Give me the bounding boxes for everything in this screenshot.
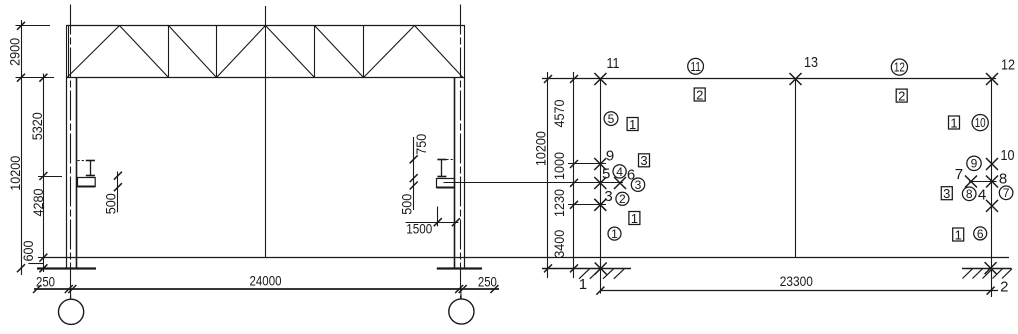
right crane level line <box>969 181 997 183</box>
truss diagonal 3 <box>169 26 217 78</box>
right-fig inner dimension line <box>573 72 575 278</box>
tick right-fig inner crane level <box>570 179 578 187</box>
tick 1500 right <box>452 218 460 226</box>
svg-text:7: 7 <box>955 166 963 183</box>
svg-text:2900: 2900 <box>7 38 23 66</box>
svg-text:1: 1 <box>955 227 962 242</box>
truss web vertical 3 <box>314 26 316 78</box>
svg-text:8: 8 <box>966 187 973 201</box>
truss right end vertical <box>464 26 466 78</box>
svg-text:2: 2 <box>619 192 626 206</box>
tick 1500 left <box>434 218 442 226</box>
measuring point circle 7 <box>999 186 1013 200</box>
right column inner flange <box>454 78 456 269</box>
tick bottom dim right end <box>490 285 498 293</box>
svg-text:5320: 5320 <box>29 112 45 140</box>
measuring point circle 10 <box>972 115 988 131</box>
truss web vertical 2 <box>216 26 218 78</box>
svg-text:10: 10 <box>975 115 986 130</box>
right column axis (dash-dot) <box>460 5 462 299</box>
svg-text:500: 500 <box>399 194 415 215</box>
extension vertical for 1500 <box>437 207 439 227</box>
svg-text:250: 250 <box>478 273 497 289</box>
svg-text:1000: 1000 <box>551 152 567 180</box>
tick 500R bottom <box>410 182 418 190</box>
svg-text:7: 7 <box>1003 186 1010 200</box>
tick 5320/4280 <box>39 172 47 180</box>
gauge square 1 lower-right <box>953 228 964 241</box>
svg-text:3: 3 <box>635 178 642 192</box>
measuring point circle 6 <box>974 227 987 240</box>
left corbel thick bottom <box>78 186 96 188</box>
dim line 750/500 right <box>413 137 415 210</box>
measuring point circle 1 <box>608 227 621 240</box>
svg-text:500: 500 <box>103 193 119 214</box>
svg-text:1: 1 <box>950 115 957 130</box>
right axis circle <box>449 299 474 324</box>
truss left end vertical <box>66 26 68 78</box>
measuring point circle 4 <box>613 165 626 178</box>
svg-text:1: 1 <box>629 117 636 132</box>
svg-text:4570: 4570 <box>551 99 567 127</box>
node 5 marker <box>594 177 606 189</box>
tick 23300 left <box>596 287 604 295</box>
truss diagonal 2 <box>120 26 169 78</box>
tick bottom dim left axis a <box>65 285 73 293</box>
tick 500L top <box>114 172 122 180</box>
extension line truss bottom <box>16 77 55 79</box>
node 2 marker <box>985 262 997 274</box>
extension line truss top <box>16 25 51 27</box>
svg-text:5: 5 <box>608 112 615 126</box>
svg-text:1: 1 <box>611 227 618 241</box>
svg-text:12: 12 <box>894 60 905 75</box>
svg-text:4280: 4280 <box>30 188 46 216</box>
left column outer flange <box>66 78 68 269</box>
node 4 marker <box>986 200 998 212</box>
extension stub floor level <box>38 257 44 259</box>
extension line corbel top level <box>38 176 62 178</box>
svg-text:3: 3 <box>604 188 612 205</box>
svg-text:9: 9 <box>971 157 978 171</box>
right crane rail top flange <box>437 159 446 161</box>
dim line for 1500 <box>406 222 459 224</box>
tick right-fig inner top <box>570 75 578 83</box>
svg-text:250: 250 <box>36 273 55 289</box>
truss diagonal 6 <box>315 26 364 78</box>
svg-text:24000: 24000 <box>250 272 282 288</box>
extension line level 9 <box>568 163 606 165</box>
tick 10200 bottom <box>17 264 25 272</box>
node 11 marker <box>594 73 606 85</box>
left crane rail dashed tie <box>78 160 87 162</box>
left outer dimension line <box>21 20 23 275</box>
svg-text:1230: 1230 <box>551 189 567 217</box>
left crane rail top flange <box>86 160 95 162</box>
svg-text:6: 6 <box>977 227 984 241</box>
middle column axis line <box>795 79 797 258</box>
tick 23300 right <box>987 287 995 295</box>
right crane rail stem <box>441 160 443 177</box>
tick right-fig outer top <box>544 75 552 83</box>
gauge square 2 left <box>694 88 705 101</box>
svg-text:12: 12 <box>1001 56 1015 73</box>
svg-text:10: 10 <box>1001 147 1015 164</box>
truss bottom chord <box>66 77 465 79</box>
svg-text:11: 11 <box>690 59 701 74</box>
measuring point circle 3 <box>631 178 644 191</box>
svg-text:3: 3 <box>640 153 647 168</box>
tick 2900 top <box>17 22 25 30</box>
truss diagonal 1 <box>67 26 120 78</box>
gauge square 1 upper-right <box>949 116 960 129</box>
gauge square 1 lower-left <box>629 212 640 225</box>
left column axis (dash-dot) <box>70 5 72 299</box>
svg-text:750: 750 <box>413 134 429 155</box>
svg-text:3: 3 <box>943 186 950 201</box>
truss top chord <box>66 25 465 27</box>
tick bottom dim right axis b <box>459 285 467 293</box>
ground line node 2 <box>962 268 1012 270</box>
svg-text:2: 2 <box>696 87 703 102</box>
svg-text:10200: 10200 <box>533 131 549 166</box>
tick 750R/500R <box>410 174 418 182</box>
truss diagonal 8 <box>415 26 463 78</box>
tick 750R top <box>410 155 418 163</box>
svg-text:4: 4 <box>616 165 623 179</box>
node 3 marker <box>594 199 606 211</box>
right corbel <box>437 179 455 188</box>
measuring point circle 9 <box>967 156 981 170</box>
gauge square 3 left <box>639 154 650 167</box>
tick 500L bottom <box>114 183 122 191</box>
svg-text:1500: 1500 <box>406 221 432 237</box>
node 10 marker <box>986 158 998 170</box>
right axis stub to circle <box>460 289 463 299</box>
svg-text:5: 5 <box>602 165 610 182</box>
tick bottom dim right axis a <box>455 285 463 293</box>
svg-text:4: 4 <box>978 187 986 204</box>
bottom dimension line 23300 <box>601 290 999 292</box>
truss diagonal 5 <box>266 26 315 78</box>
measuring point circle 2 <box>616 192 629 205</box>
truss web vertical 4 <box>363 26 365 78</box>
svg-text:8: 8 <box>999 170 1007 187</box>
right column outer flange <box>464 78 466 269</box>
floor line <box>44 257 1010 259</box>
right column axis line <box>991 79 993 298</box>
svg-text:2: 2 <box>898 88 905 103</box>
node 13 marker <box>790 73 802 85</box>
svg-text:2: 2 <box>1000 279 1008 296</box>
left axis circle <box>59 299 84 324</box>
right foundation ground line (thick) <box>437 267 482 269</box>
svg-text:1: 1 <box>579 276 587 293</box>
right crane rail bottom flange <box>437 176 446 178</box>
gauge square 1 upper-left <box>627 118 638 131</box>
svg-text:13: 13 <box>804 54 818 71</box>
tick 4280/600 <box>39 254 47 262</box>
node 6 marker (off-axis crane point) <box>614 177 626 189</box>
svg-text:9: 9 <box>606 147 614 164</box>
tick 5320 top <box>39 74 47 82</box>
left crane rail stem <box>90 161 92 176</box>
dim line 500 left <box>117 172 119 213</box>
gauge square 2 right <box>896 89 907 102</box>
svg-text:600: 600 <box>20 240 36 261</box>
truss web vertical 1 <box>168 26 170 78</box>
left column axis line <box>600 79 602 294</box>
tick right-fig inner bottom <box>570 264 578 272</box>
left foundation ground line (thick) <box>37 267 96 269</box>
node 12 marker <box>986 73 998 85</box>
frame top chord line <box>542 78 996 80</box>
hatch node 1 <box>579 269 590 279</box>
tick 2900/10200 <box>17 74 25 82</box>
extension line level 3 <box>568 204 606 206</box>
node 1 marker <box>595 263 607 275</box>
right corbel thick bottom <box>437 187 455 189</box>
right-fig outer dimension line <box>547 72 549 278</box>
node 7 marker (off-axis crane point) <box>965 176 977 188</box>
building center axis <box>265 6 267 258</box>
left inner dimension line <box>43 74 45 273</box>
svg-text:10200: 10200 <box>7 156 23 191</box>
gauge square 3 right <box>941 187 952 200</box>
left column inner flange <box>76 78 78 269</box>
node 9 marker <box>594 158 606 170</box>
node 8 marker <box>986 176 998 188</box>
tick right-fig inner level 3 <box>570 201 578 209</box>
left axis stub to circle <box>69 289 71 299</box>
svg-text:11: 11 <box>607 55 620 72</box>
hatch node 2 <box>963 269 973 279</box>
svg-text:1: 1 <box>631 211 638 226</box>
truss diagonal 7 <box>364 26 415 78</box>
ground line node 1 <box>542 268 631 270</box>
left crane rail bottom flange <box>86 175 95 177</box>
tick bottom dim left end <box>33 285 41 293</box>
truss left end inner vertical <box>68 26 70 78</box>
measuring point circle 12 <box>891 59 907 75</box>
truss diagonal 4 <box>217 26 266 78</box>
measuring point circle 11 <box>688 58 704 74</box>
crane beam level line to right figure <box>444 182 624 184</box>
measuring point circle 8 <box>962 187 976 201</box>
tick right-fig inner level 9 <box>570 160 578 168</box>
tick right-fig outer bottom <box>544 264 552 272</box>
small line under 600 text <box>28 263 43 265</box>
tick bottom dim left axis b <box>68 285 76 293</box>
right crane rail dashed tie <box>446 159 454 161</box>
svg-text:23300: 23300 <box>780 273 813 289</box>
bottom dimension line (thick) <box>34 288 499 290</box>
svg-text:3400: 3400 <box>551 230 567 258</box>
tick 600 bottom <box>39 264 47 272</box>
measuring point circle 5 <box>604 112 618 126</box>
left corbel <box>78 178 96 187</box>
